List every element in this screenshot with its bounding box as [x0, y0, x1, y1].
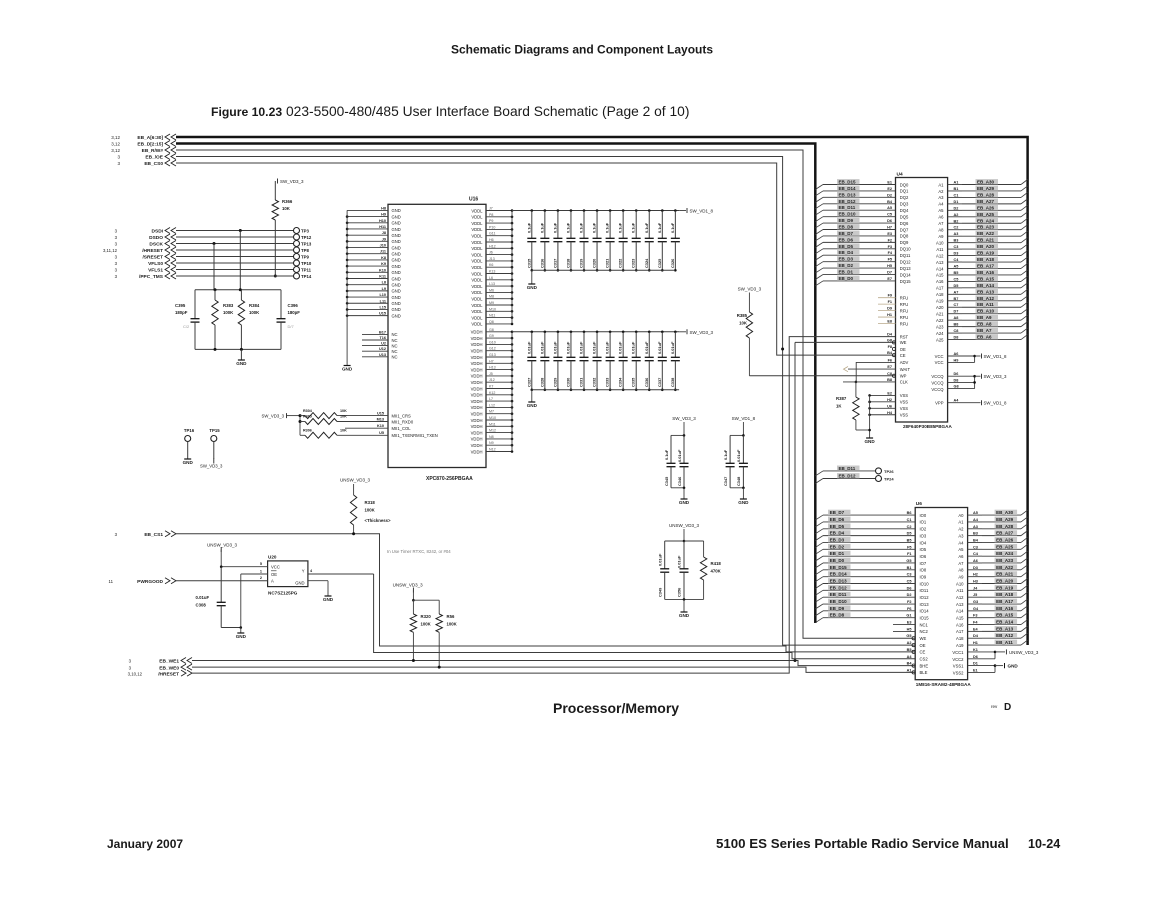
svg-text:0.1uF: 0.1uF	[723, 449, 728, 460]
svg-text:EB_D11: EB_D11	[839, 205, 856, 210]
svg-text:L12: L12	[489, 403, 495, 407]
svg-text:CLK: CLK	[900, 380, 908, 385]
svg-text:3,11,12: 3,11,12	[103, 248, 118, 253]
svg-text:IO1: IO1	[920, 520, 927, 525]
svg-text:VDDH: VDDH	[471, 430, 483, 435]
svg-text:EB_A17: EB_A17	[977, 263, 995, 268]
svg-text:C5: C5	[954, 277, 959, 281]
flash U4 VPP pin to SW_VD1_8	[935, 399, 1007, 406]
svg-text:0.01uF: 0.01uF	[565, 341, 570, 354]
svg-text:A5: A5	[938, 208, 944, 213]
svg-text:F8: F8	[888, 345, 892, 349]
svg-text:EB_A28: EB_A28	[996, 524, 1014, 529]
ground below bank1	[527, 270, 538, 290]
junction DSDI tap	[239, 229, 242, 290]
capacitor C338 0.01uF	[670, 331, 680, 392]
svg-text:GND: GND	[392, 289, 401, 294]
svg-text:GND: GND	[392, 307, 401, 312]
net EB_A[6:30] bus entry	[111, 134, 176, 141]
svg-text:EB_A17: EB_A17	[996, 599, 1014, 604]
svg-text:F3: F3	[973, 614, 977, 618]
net VFLS0 with test point TP10	[115, 260, 312, 267]
svg-text:A6: A6	[938, 215, 944, 220]
svg-text:A7: A7	[938, 221, 944, 226]
SRAM U6 VSS pins to ground	[953, 662, 1019, 676]
svg-text:K12: K12	[489, 391, 495, 395]
svg-text:M6: M6	[489, 288, 494, 292]
svg-text:A6: A6	[954, 352, 959, 356]
svg-text:A12: A12	[956, 595, 964, 600]
wire /HRESET to U4 RST riser	[192, 337, 896, 673]
svg-text:L6: L6	[489, 276, 493, 280]
processor U16 pin MII1_COL	[345, 424, 411, 431]
svg-text:A22: A22	[936, 318, 944, 323]
svg-text:0.01uF: 0.01uF	[677, 555, 682, 568]
svg-text:C324: C324	[644, 258, 649, 268]
svg-text:EB_R/W#: EB_R/W#	[142, 148, 164, 154]
svg-text:A5: A5	[973, 511, 978, 515]
svg-text:C5: C5	[887, 213, 892, 217]
svg-text:F2: F2	[888, 238, 892, 242]
net EB_/OE bus entry	[117, 154, 176, 161]
svg-text:EB_A8: EB_A8	[977, 322, 992, 327]
svg-text:VSS: VSS	[900, 393, 909, 398]
capacitor C335 0.01uF	[631, 331, 641, 392]
svg-text:GND: GND	[738, 500, 749, 505]
svg-text:E7: E7	[887, 277, 892, 281]
capacitor C334 0.01uF	[618, 331, 628, 392]
svg-text:UNSW_VD3_3: UNSW_VD3_3	[669, 523, 700, 528]
svg-text:D8: D8	[954, 336, 959, 340]
junction DSCK tap	[213, 242, 216, 290]
svg-text:A12: A12	[936, 253, 944, 258]
svg-text:1: 1	[260, 569, 262, 573]
svg-text:EB_A26: EB_A26	[977, 205, 995, 210]
svg-text:MII1_RXD0: MII1_RXD0	[392, 419, 414, 424]
svg-text:A16: A16	[956, 622, 964, 627]
svg-text:E2: E2	[887, 187, 892, 191]
processor U16 VDDL pins	[471, 207, 513, 327]
svg-text:EB_A13: EB_A13	[996, 626, 1014, 631]
svg-text:GND: GND	[392, 245, 401, 250]
svg-text:G9: G9	[489, 334, 494, 338]
svg-text:VDDH: VDDH	[471, 361, 483, 366]
svg-text:E3: E3	[887, 232, 892, 236]
resistor R383 100K	[212, 290, 234, 350]
svg-text:SW_VD3_3: SW_VD3_3	[984, 374, 1007, 379]
svg-text:C338: C338	[670, 377, 675, 387]
svg-text:VSS: VSS	[900, 406, 909, 411]
svg-text:A18: A18	[956, 636, 964, 641]
processor U16 NC pins	[362, 330, 398, 359]
capacitor C326 0.1uF	[670, 209, 680, 271]
svg-text:N12: N12	[489, 448, 496, 452]
svg-text:EB_D7: EB_D7	[839, 231, 854, 236]
svg-text:B2: B2	[954, 219, 959, 223]
svg-text:A5: A5	[954, 264, 959, 268]
svg-text:WP: WP	[900, 374, 907, 379]
capacitor C345 0.1uF	[664, 435, 684, 487]
net /HRESET entry	[128, 670, 192, 677]
svg-text:H2: H2	[973, 573, 978, 577]
svg-text:U12: U12	[379, 347, 386, 351]
flash U4 address pins A1-A25 with EB_A bus taps	[936, 179, 1028, 342]
svg-text:L11: L11	[380, 299, 386, 303]
svg-text:EB_D7: EB_D7	[830, 510, 845, 515]
svg-text:VDDL: VDDL	[471, 252, 483, 257]
svg-text:0.1uF: 0.1uF	[670, 222, 675, 233]
svg-text:U16: U16	[469, 197, 478, 203]
svg-text:C322: C322	[618, 258, 623, 268]
svg-text:A25: A25	[936, 337, 944, 342]
svg-text:C320: C320	[592, 259, 597, 268]
svg-text:C8: C8	[954, 329, 959, 333]
wire SW_VD1_8 decoupling rail	[512, 210, 679, 212]
svg-text:A1: A1	[907, 668, 912, 672]
svg-text:C346: C346	[677, 476, 682, 486]
svg-text:IO15: IO15	[920, 616, 930, 621]
svg-text:C328: C328	[539, 377, 544, 387]
svg-text:C1: C1	[907, 518, 912, 522]
svg-text:TP16: TP16	[184, 428, 195, 433]
ground below U16 GND pins	[342, 366, 353, 372]
svg-text:L9: L9	[382, 287, 386, 291]
svg-text:VDDH: VDDH	[471, 355, 483, 360]
svg-text:B3: B3	[954, 239, 959, 243]
svg-text:C308: C308	[196, 603, 207, 608]
svg-text:0.1uF: 0.1uF	[644, 222, 649, 233]
svg-text:/PPC_TMS: /PPC_TMS	[139, 274, 164, 280]
svg-text:28F640P30B85PBGAA: 28F640P30B85PBGAA	[903, 424, 952, 429]
svg-text:MII1_COL: MII1_COL	[392, 426, 412, 431]
svg-text:VDDH: VDDH	[471, 418, 483, 423]
svg-text:U15: U15	[377, 411, 384, 415]
capacitor C323 0.1uF	[631, 209, 641, 271]
svg-text:DQ15: DQ15	[900, 279, 912, 284]
svg-text:EB_D13: EB_D13	[830, 579, 848, 584]
svg-text:G3: G3	[973, 600, 978, 604]
capacitor C395 180pF	[175, 290, 200, 350]
svg-text:RFU: RFU	[900, 321, 909, 326]
svg-text:VDDH: VDDH	[471, 437, 483, 442]
svg-text:EB_D3: EB_D3	[839, 257, 854, 262]
net EB_WE1 entry	[129, 658, 192, 665]
svg-text:A2: A2	[938, 189, 944, 194]
svg-text:D5: D5	[954, 284, 959, 288]
svg-text:EB_A14: EB_A14	[996, 620, 1014, 625]
net WAIT stub	[844, 367, 896, 372]
svg-text:OE: OE	[900, 347, 906, 352]
svg-text:RFU: RFU	[900, 315, 909, 320]
svg-text:GND: GND	[392, 270, 401, 275]
svg-text:H7: H7	[489, 359, 494, 363]
svg-text:GND: GND	[392, 282, 401, 287]
svg-text:0.01uF: 0.01uF	[658, 553, 663, 566]
capacitor C316 0.1uF	[539, 209, 549, 271]
buffer U20 NC7SZ125 body	[268, 555, 308, 596]
SRAM U6 data pins IO0-IO15 with EB_D bus taps	[815, 510, 929, 623]
resistor R384 100K	[238, 290, 260, 350]
svg-text:C321: C321	[605, 258, 610, 268]
svg-text:DQ4: DQ4	[900, 208, 909, 213]
svg-text:VCCQ: VCCQ	[931, 387, 944, 392]
svg-text:C1: C1	[954, 193, 959, 197]
svg-text:CE: CE	[920, 650, 926, 655]
svg-text:D5: D5	[907, 532, 912, 536]
svg-text:VDDL: VDDL	[471, 240, 483, 245]
power net UNSW_VD3_3 label (U20)	[207, 543, 238, 567]
svg-text:B1: B1	[907, 566, 912, 570]
svg-text:C345: C345	[664, 476, 669, 486]
svg-text:R418: R418	[711, 561, 722, 566]
resistor R305 10K	[300, 415, 414, 425]
svg-text:XPC870-256PBGAA: XPC870-256PBGAA	[426, 476, 473, 482]
svg-text:GND: GND	[679, 613, 690, 618]
svg-text:VDDL: VDDL	[471, 271, 483, 276]
ground below bank2	[527, 390, 538, 408]
svg-text:DQ3: DQ3	[900, 202, 909, 207]
wire U4 ADV tie to R387	[856, 362, 895, 382]
svg-text:C7: C7	[954, 303, 959, 307]
svg-text:G10: G10	[489, 340, 496, 344]
svg-text:100K: 100K	[421, 622, 432, 627]
svg-text:EB_D15: EB_D15	[830, 565, 848, 570]
svg-text:DQ13: DQ13	[900, 266, 912, 271]
svg-text:H10: H10	[379, 219, 386, 223]
svg-text:B8: B8	[954, 323, 959, 327]
svg-text:CE: CE	[900, 353, 906, 358]
capacitor C324 0.1uF	[644, 209, 654, 271]
svg-text:0.01uF: 0.01uF	[579, 341, 584, 354]
svg-text:EB_/OE: EB_/OE	[145, 155, 163, 161]
svg-text:EB_A29: EB_A29	[996, 517, 1014, 522]
wire EB_/OE horizontal+vertical	[176, 157, 915, 646]
svg-text:M10: M10	[489, 416, 496, 420]
svg-text:D2: D2	[954, 206, 959, 210]
svg-text:EB_D0: EB_D0	[830, 558, 845, 563]
svg-text:EB_A11: EB_A11	[977, 302, 994, 307]
svg-text:F6: F6	[907, 607, 911, 611]
svg-text:H9: H9	[954, 358, 959, 362]
svg-text:C326: C326	[670, 258, 675, 268]
svg-text:In Use Timer RTXC, 8242, or #0: In Use Timer RTXC, 8242, or #04	[387, 549, 451, 554]
wire rail bottom of RC group	[195, 348, 281, 351]
net EB_CS0 bus entry	[117, 160, 176, 167]
svg-text:C335: C335	[631, 377, 636, 387]
svg-text:EB_A30: EB_A30	[996, 510, 1014, 515]
svg-text:H1: H1	[887, 313, 892, 317]
svg-text:VDDH: VDDH	[471, 367, 483, 372]
svg-text:H2: H2	[887, 398, 892, 402]
svg-text:IO7: IO7	[920, 561, 927, 566]
U20 pin GND	[295, 581, 334, 603]
svg-text:B3: B3	[973, 532, 978, 536]
svg-text:U6: U6	[887, 404, 892, 408]
svg-text:VDDH: VDDH	[471, 405, 483, 410]
svg-text:180pF: 180pF	[288, 310, 301, 315]
svg-text:UNSW_VD3_3: UNSW_VD3_3	[1009, 650, 1039, 655]
svg-text:EB_A[6:30]: EB_A[6:30]	[137, 135, 163, 141]
svg-text:WAIT: WAIT	[900, 367, 911, 372]
svg-text:ADV: ADV	[900, 360, 909, 365]
svg-text:EB_D11: EB_D11	[830, 592, 847, 597]
SRAM U6 VCC pins to UNSW_VD3_3	[952, 648, 1039, 662]
svg-text:TP9: TP9	[301, 255, 309, 260]
svg-text:RFU: RFU	[900, 296, 909, 301]
svg-text:D9: D9	[887, 307, 892, 311]
net /SRESET with test point TP9	[115, 254, 310, 261]
svg-text:SW_VD3_3: SW_VD3_3	[738, 287, 762, 292]
svg-text:E1: E1	[887, 181, 892, 185]
svg-text:EB_A20: EB_A20	[996, 579, 1014, 584]
ground below C347 C348	[730, 487, 749, 506]
capacitor C356 0.01uF	[677, 540, 689, 600]
svg-text:A16: A16	[936, 279, 944, 284]
svg-text:J12: J12	[489, 378, 495, 382]
svg-text:C8: C8	[887, 372, 892, 376]
capacitor C396 180pF	[277, 290, 301, 350]
net EB_WE0 entry	[129, 664, 192, 671]
svg-text:EB_CS1: EB_CS1	[144, 532, 163, 538]
svg-text:C334: C334	[618, 377, 623, 387]
svg-text:0.1uF: 0.1uF	[618, 222, 623, 233]
svg-text:D2: D2	[907, 593, 912, 597]
svg-text:VDDL: VDDL	[471, 259, 483, 264]
svg-text:TP24: TP24	[884, 477, 894, 482]
svg-text:R304: R304	[303, 409, 313, 413]
svg-text:10K: 10K	[739, 321, 748, 326]
svg-text:A15: A15	[936, 273, 944, 278]
capacitor C321 0.1uF	[605, 209, 615, 271]
svg-text:GND: GND	[527, 403, 538, 408]
svg-text:B8: B8	[887, 378, 892, 382]
svg-text:C327: C327	[526, 378, 531, 387]
svg-text:EB_WE1: EB_WE1	[159, 659, 179, 665]
svg-text:GND: GND	[679, 500, 690, 505]
svg-text:VDDL: VDDL	[471, 234, 483, 239]
svg-text:IO2: IO2	[920, 527, 927, 532]
capacitor C317 0.1uF	[552, 209, 562, 271]
svg-text:H13: H13	[489, 366, 496, 370]
svg-text:C348: C348	[736, 476, 741, 486]
svg-text:EB_A12: EB_A12	[996, 633, 1014, 638]
svg-text:A9: A9	[938, 234, 944, 239]
power net SW_VD1_8 label (pair)	[732, 416, 756, 435]
svg-text:VDDH: VDDH	[471, 386, 483, 391]
svg-text:U6: U6	[916, 501, 922, 507]
svg-text:DQ12: DQ12	[900, 259, 912, 264]
svg-text:A11: A11	[936, 247, 944, 252]
svg-text:GND: GND	[392, 233, 401, 238]
svg-text:EB_A13: EB_A13	[977, 289, 995, 294]
svg-text:A19: A19	[936, 299, 944, 304]
svg-text:C315: C315	[526, 258, 531, 268]
svg-text:GND: GND	[392, 276, 401, 281]
svg-text:EB_A25: EB_A25	[996, 544, 1014, 549]
capacitor C331 0.01uF	[579, 331, 589, 392]
svg-text:A17: A17	[956, 629, 964, 634]
svg-text:0.1uF: 0.1uF	[526, 222, 531, 233]
resistor R387 1K	[836, 381, 896, 430]
svg-text:C331: C331	[579, 377, 584, 387]
svg-text:K13: K13	[489, 270, 495, 274]
svg-text:EB_A30: EB_A30	[977, 180, 995, 185]
wire SW_VD3_3 decoupling rail	[512, 331, 679, 333]
wire bank1 ground rail	[532, 269, 675, 271]
svg-text:0.01uF: 0.01uF	[552, 341, 557, 354]
resistor R320 100K	[410, 600, 431, 660]
svg-text:N11: N11	[489, 314, 495, 318]
svg-text:R385: R385	[737, 313, 748, 318]
svg-text:VFLS1: VFLS1	[148, 268, 163, 274]
svg-text:A1: A1	[958, 520, 964, 525]
svg-text:GND: GND	[527, 285, 538, 290]
svg-text:EB_D6: EB_D6	[830, 517, 845, 522]
svg-text:GND: GND	[183, 460, 194, 465]
resistor R318 100K	[350, 495, 391, 534]
svg-text:A6: A6	[958, 554, 964, 559]
svg-text:G8: G8	[954, 385, 959, 389]
svg-text:VCCQ: VCCQ	[931, 374, 944, 379]
svg-text:EB_A6: EB_A6	[977, 335, 992, 340]
svg-text:R305: R305	[303, 415, 312, 419]
svg-text:A13: A13	[936, 260, 944, 265]
svg-text:100K: 100K	[447, 622, 458, 627]
svg-text:EB_D11: EB_D11	[839, 466, 856, 471]
net EB_D[2:15] bus entry	[111, 141, 176, 148]
svg-text:G5: G5	[906, 559, 911, 563]
svg-text:L15: L15	[379, 305, 386, 309]
microprocessor U16 XPC870 body	[388, 197, 486, 483]
svg-text:B6: B6	[907, 511, 912, 515]
svg-text:VCCQ: VCCQ	[931, 380, 944, 385]
svg-text:F9: F9	[888, 294, 892, 298]
svg-text:D7: D7	[954, 310, 959, 314]
svg-text:0.01uF: 0.01uF	[631, 341, 636, 354]
svg-text:EB_A29: EB_A29	[977, 186, 995, 191]
svg-text:A9: A9	[958, 574, 964, 579]
svg-text:0.01uF: 0.01uF	[736, 449, 741, 462]
svg-text:IO14: IO14	[920, 609, 930, 614]
svg-text:VDDH: VDDH	[471, 380, 483, 385]
svg-text:G8: G8	[489, 328, 494, 332]
svg-text:GND: GND	[392, 264, 401, 269]
svg-text:EB_D4: EB_D4	[839, 250, 854, 255]
svg-text:EB_D12: EB_D12	[830, 585, 848, 590]
svg-text:VDDH: VDDH	[471, 330, 483, 335]
resistor R304 10K	[300, 409, 411, 419]
svg-text:TP13: TP13	[301, 242, 312, 247]
svg-text:TP10: TP10	[301, 261, 312, 266]
ground below C308	[221, 626, 246, 639]
svg-text:DQ8: DQ8	[900, 234, 909, 239]
wire EB_WE1 to U4 WE and U6 BHE	[192, 659, 915, 666]
svg-text:A8: A8	[954, 316, 959, 320]
svg-text:VSS2: VSS2	[953, 670, 964, 675]
svg-text:A1: A1	[954, 181, 959, 185]
svg-text:TP8: TP8	[301, 248, 309, 253]
svg-text:SW_VD3_3: SW_VD3_3	[200, 464, 223, 469]
U20 pin OE	[241, 569, 277, 627]
svg-text:EB_A27: EB_A27	[977, 199, 995, 204]
capacitor C322 0.1uF	[618, 209, 628, 271]
svg-text:C349: C349	[658, 587, 663, 597]
svg-text:VDDL: VDDL	[471, 297, 483, 302]
wire EB_CS0 horizontal+vertical	[176, 163, 896, 355]
net /HRESET with test point TP8	[103, 247, 310, 254]
svg-text:EB_A18: EB_A18	[996, 592, 1014, 597]
svg-text:GND: GND	[392, 221, 401, 226]
